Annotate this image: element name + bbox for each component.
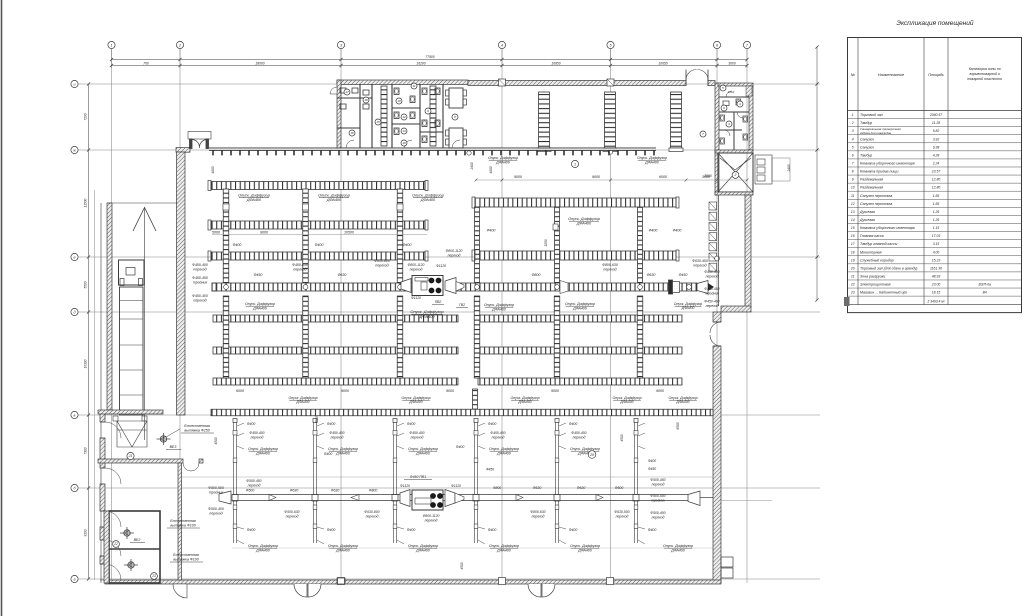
svg-text:Ф630: Ф630	[290, 489, 299, 493]
svg-text:переход: переход	[706, 275, 719, 279]
svg-text:7500: 7500	[315, 416, 319, 423]
svg-text:Ф500-400: Ф500-400	[208, 507, 224, 511]
svg-text:ДФА400: ДФА400	[491, 307, 506, 311]
svg-text:ДФА400: ДФА400	[295, 400, 309, 404]
svg-text:Ф800-630: Ф800-630	[530, 510, 545, 514]
svg-text:Ф630: Ф630	[338, 273, 347, 277]
svg-text:2400: 2400	[787, 164, 791, 172]
svg-text:ДФА400: ДФА400	[681, 306, 695, 310]
svg-text:переход: переход	[603, 268, 616, 272]
svg-text:4.28: 4.28	[933, 153, 940, 157]
svg-text:ДФА400: ДФА400	[246, 198, 262, 202]
svg-text:переход: переход	[492, 436, 505, 440]
svg-text:4: 4	[501, 43, 503, 47]
svg-text:Ф400: Ф400	[247, 422, 256, 426]
svg-text:тройник: тройник	[705, 292, 719, 296]
svg-text:10500: 10500	[344, 231, 354, 235]
svg-text:Ф400: Ф400	[407, 528, 416, 532]
svg-text:15: 15	[851, 226, 855, 230]
svg-text:Ф500-500: Ф500-500	[208, 486, 224, 490]
svg-text:ВЕ3: ВЕ3	[170, 445, 177, 449]
svg-text:23.57: 23.57	[931, 170, 941, 174]
svg-text:23.00: 23.00	[931, 283, 941, 287]
svg-text:Комната уборочного инвентаря: Комната уборочного инвентаря	[860, 226, 915, 230]
svg-text:переход: переход	[248, 484, 261, 488]
svg-text:пожарной опасности: пожарной опасности	[967, 77, 1002, 81]
svg-text:Ф500-450: Ф500-450	[246, 479, 261, 483]
svg-text:Ф630-450: Ф630-450	[692, 259, 708, 263]
svg-text:16: 16	[364, 98, 368, 102]
svg-text:переход: переход	[366, 515, 379, 519]
svg-text:17: 17	[345, 90, 349, 94]
svg-text:Торговый зал: Торговый зал	[860, 113, 883, 117]
svg-text:Наименование: Наименование	[878, 73, 904, 77]
svg-text:18.15: 18.15	[932, 291, 941, 295]
svg-text:13: 13	[402, 129, 406, 133]
svg-text:ДФА400: ДФА400	[418, 314, 435, 319]
svg-text:20: 20	[850, 266, 855, 270]
svg-text:18: 18	[350, 131, 354, 135]
svg-text:Ф450: Ф450	[486, 468, 494, 472]
svg-text:Главная касса: Главная касса	[860, 234, 884, 238]
svg-text:Ф500: Ф500	[246, 489, 255, 493]
svg-text:Ф450-400: Ф450-400	[571, 431, 586, 435]
svg-text:Санузел персонала: Санузел персонала	[860, 194, 892, 198]
svg-text:Ф800: Ф800	[369, 489, 378, 493]
svg-text:ДФА400: ДФА400	[420, 198, 436, 202]
svg-text:ПВ2: ПВ2	[435, 300, 442, 304]
svg-text:1: 1	[574, 162, 576, 166]
svg-text:Ф630-800: Ф630-800	[364, 510, 379, 514]
svg-text:6000: 6000	[236, 389, 244, 393]
svg-text:Естественная: Естественная	[184, 424, 210, 428]
svg-text:ГВ2: ГВ2	[459, 303, 465, 307]
svg-text:9.38: 9.38	[933, 145, 940, 149]
svg-text:Ф450-400: Ф450-400	[704, 270, 719, 274]
svg-text:Ф400: Ф400	[649, 229, 658, 233]
svg-text:19: 19	[851, 258, 855, 262]
svg-text:Ф1120: Ф1120	[436, 264, 446, 268]
svg-text:Ф630: Ф630	[533, 486, 542, 490]
svg-text:Комната уборочного инвентаря: Комната уборочного инвентаря	[860, 162, 915, 166]
svg-text:3: 3	[852, 129, 854, 133]
svg-text:Ф400: Ф400	[233, 243, 242, 247]
svg-text:переход: переход	[251, 436, 264, 440]
svg-text:Ф400: Ф400	[407, 422, 416, 426]
svg-text:19: 19	[402, 141, 406, 145]
svg-text:переход: переход	[693, 264, 706, 268]
svg-text:4500: 4500	[620, 434, 624, 441]
svg-text:11: 11	[851, 194, 855, 198]
svg-text:ДФА400: ДФА400	[255, 451, 270, 455]
svg-text:ДФА400: ДФА400	[495, 160, 510, 164]
svg-text:Ф800-1120: Ф800-1120	[446, 249, 463, 253]
svg-text:9: 9	[852, 178, 854, 182]
svg-text:Мониторная: Мониторная	[860, 250, 882, 254]
svg-text:Ф450-400: Ф450-400	[249, 431, 264, 435]
svg-text:тройник: тройник	[209, 490, 224, 494]
svg-text:7200: 7200	[84, 113, 88, 120]
svg-text:2: 2	[734, 173, 737, 177]
svg-text:В3/П-IIа: В3/П-IIа	[979, 283, 992, 287]
svg-text:Опуск. Диффузор: Опуск. Диффузор	[412, 194, 444, 198]
svg-text:Ф500-400: Ф500-400	[650, 511, 665, 515]
svg-text:№: №	[851, 73, 855, 77]
svg-text:Ф630: Ф630	[647, 273, 656, 277]
svg-text:переход: переход	[706, 304, 719, 308]
svg-text:48.93: 48.93	[932, 275, 941, 279]
svg-text:12: 12	[851, 202, 855, 206]
svg-text:Ф400: Ф400	[569, 528, 578, 532]
svg-text:700: 700	[143, 61, 149, 65]
svg-text:е: е	[74, 255, 76, 259]
svg-text:ДФА400: ДФА400	[675, 400, 689, 404]
svg-text:3000: 3000	[702, 175, 710, 179]
svg-text:15.23: 15.23	[932, 258, 941, 262]
svg-text:11.28: 11.28	[932, 121, 940, 125]
svg-text:Санузел персонала: Санузел персонала	[860, 202, 892, 206]
svg-text:ДФА400: ДФА400	[496, 548, 511, 552]
svg-text:Душевая: Душевая	[859, 210, 875, 214]
svg-text:10850: 10850	[551, 61, 560, 65]
svg-text:тройник: тройник	[651, 498, 665, 502]
svg-text:1.26: 1.26	[933, 218, 940, 222]
svg-text:Категория зоны по: Категория зоны по	[969, 67, 1001, 71]
svg-text:5.82: 5.82	[933, 129, 940, 133]
svg-text:Электрощитовая: Электрощитовая	[860, 283, 891, 287]
svg-text:2.24: 2.24	[932, 162, 940, 166]
svg-text:Служебный коридор: Служебный коридор	[860, 258, 894, 262]
svg-text:1.15: 1.15	[933, 226, 940, 230]
svg-text:Ф630: Ф630	[577, 486, 586, 490]
svg-text:8: 8	[852, 170, 854, 174]
svg-text:9000: 9000	[514, 175, 522, 179]
svg-text:взрывопожарной и: взрывопожарной и	[970, 72, 1000, 76]
svg-text:21: 21	[850, 275, 855, 279]
svg-text:переход: переход	[425, 518, 438, 522]
svg-text:10300: 10300	[84, 359, 88, 368]
svg-text:ДФА400: ДФА400	[577, 548, 592, 552]
svg-text:3.15: 3.15	[933, 242, 940, 246]
svg-text:Ф450-400: Ф450-400	[704, 300, 719, 304]
svg-text:Ф400: Ф400	[327, 422, 336, 426]
svg-text:2: 2	[851, 121, 854, 125]
svg-text:Ф450-450: Ф450-450	[192, 276, 208, 280]
svg-text:переход: переход	[573, 436, 586, 440]
svg-text:ДФА400: ДФА400	[252, 306, 267, 310]
svg-text:Ф450-630: Ф450-630	[292, 263, 308, 267]
svg-text:6: 6	[716, 43, 718, 47]
svg-text:Ф450-400: Ф450-400	[490, 431, 505, 435]
svg-text:Тамбур главной кассы: Тамбур главной кассы	[860, 242, 898, 246]
svg-text:7: 7	[852, 162, 854, 166]
svg-text:4: 4	[852, 137, 854, 141]
svg-text:Торговый зал (для сдачи в арен: Торговый зал (для сдачи в аренду)	[860, 266, 918, 270]
svg-text:12: 12	[402, 115, 406, 119]
svg-text:15: 15	[376, 120, 380, 124]
svg-text:Ф450-400: Ф450-400	[192, 294, 208, 298]
svg-text:2400: 2400	[470, 162, 474, 170]
svg-text:Душевая: Душевая	[859, 218, 875, 222]
svg-text:Ф630: Ф630	[331, 489, 340, 493]
svg-text:Ф400: Ф400	[488, 422, 497, 426]
svg-text:Ф400: Ф400	[569, 422, 578, 426]
svg-text:7300: 7300	[84, 447, 88, 454]
svg-text:9000: 9000	[656, 389, 664, 393]
svg-text:Площадь: Площадь	[928, 73, 944, 77]
svg-text:переход: переход	[209, 511, 222, 515]
svg-text:Ф450: Ф450	[679, 273, 688, 277]
svg-text:Ф1120: Ф1120	[400, 484, 410, 488]
svg-text:4000: 4000	[211, 166, 215, 173]
svg-text:тройник: тройник	[193, 281, 208, 285]
svg-text:10: 10	[397, 99, 401, 103]
svg-text:Опуск. Диффузор: Опуск. Диффузор	[238, 194, 270, 198]
svg-text:Ф400: Ф400	[673, 229, 682, 233]
svg-text:1.65: 1.65	[933, 202, 940, 206]
svg-text:ДФА400: ДФА400	[496, 451, 511, 455]
svg-text:23: 23	[850, 291, 855, 295]
svg-text:ДФА400: ДФА400	[335, 451, 350, 455]
svg-text:Ф400: Ф400	[324, 452, 333, 456]
svg-text:Зона разгрузки: Зона разгрузки	[860, 275, 885, 279]
svg-text:ДФА400: ДФА400	[335, 548, 350, 552]
svg-text:Магазин ... Кабинетный цех: Магазин ... Кабинетный цех	[860, 291, 907, 295]
svg-text:Ф400: Ф400	[487, 229, 496, 233]
svg-text:11: 11	[412, 84, 415, 88]
svg-text:4500: 4500	[460, 562, 464, 569]
svg-text:переход: переход	[193, 299, 206, 303]
svg-text:ДФА400: ДФА400	[572, 306, 587, 310]
svg-text:Опуск. Диффузор: Опуск. Диффузор	[318, 194, 350, 198]
svg-text:в: в	[74, 413, 76, 417]
svg-text:22: 22	[113, 542, 118, 546]
svg-text:1.26: 1.26	[933, 210, 940, 214]
svg-text:переход: переход	[375, 264, 388, 268]
svg-text:ДФА400: ДФА400	[408, 400, 422, 404]
svg-text:16200: 16200	[416, 61, 425, 65]
svg-text:ДФА400: ДФА400	[644, 160, 659, 164]
svg-text:Σ 3463.4 м²: Σ 3463.4 м²	[926, 299, 945, 303]
svg-text:12.80: 12.80	[932, 178, 941, 182]
svg-text:9000: 9000	[446, 389, 454, 393]
svg-text:3250: 3250	[544, 239, 548, 246]
svg-text:Lolol: Lolol	[728, 90, 735, 94]
svg-text:9000: 9000	[260, 231, 268, 235]
svg-text:и: и	[74, 82, 76, 86]
svg-text:Ф450-400: Ф450-400	[329, 431, 344, 435]
svg-text:Естественная: Естественная	[173, 553, 199, 557]
svg-text:Ф500-450: Ф500-450	[650, 478, 665, 482]
svg-text:Санузел: Санузел	[860, 137, 874, 141]
svg-text:20: 20	[589, 453, 594, 457]
svg-text:6: 6	[852, 153, 854, 157]
svg-text:6500: 6500	[676, 422, 680, 429]
svg-text:2: 2	[178, 43, 181, 47]
svg-text:переход: переход	[532, 515, 545, 519]
svg-text:77900: 77900	[425, 55, 434, 59]
svg-text:вытяжка Ф100: вытяжка Ф100	[173, 558, 198, 562]
svg-text:переход: переход	[616, 515, 629, 519]
svg-text:переход: переход	[193, 268, 206, 272]
svg-text:вытяжка Ф250: вытяжка Ф250	[184, 429, 209, 433]
svg-text:3000: 3000	[728, 61, 736, 65]
svg-text:6000: 6000	[659, 175, 667, 179]
svg-text:переход: переход	[331, 436, 344, 440]
svg-text:1161.30: 1161.30	[930, 266, 942, 270]
svg-text:Ф450-450: Ф450-450	[704, 287, 719, 291]
svg-text:4000: 4000	[489, 166, 493, 173]
svg-text:Ф450: Ф450	[648, 467, 656, 471]
svg-text:Комната приема пищи: Комната приема пищи	[860, 170, 898, 174]
svg-text:ДФА400: ДФА400	[255, 548, 270, 552]
svg-text:переход: переход	[652, 483, 665, 487]
svg-text:переход: переход	[448, 254, 461, 258]
svg-text:12.80: 12.80	[932, 186, 941, 190]
svg-text:Тамбур: Тамбур	[860, 121, 872, 125]
svg-text:ДФА400: ДФА400	[415, 451, 430, 455]
svg-text:Экспликация помещений: Экспликация помещений	[896, 19, 974, 27]
svg-text:ДФА400: ДФА400	[517, 400, 531, 404]
svg-text:14: 14	[851, 218, 855, 222]
svg-text:18000: 18000	[255, 61, 264, 65]
svg-text:3.92: 3.92	[933, 137, 940, 141]
svg-text:ж: ж	[72, 148, 76, 152]
svg-text:переход: переход	[652, 515, 665, 519]
svg-text:Ф400: Ф400	[488, 528, 497, 532]
svg-text:кабина для инвалидов: кабина для инвалидов	[860, 131, 892, 135]
svg-text:21: 21	[128, 454, 133, 458]
svg-text:16: 16	[851, 234, 855, 238]
svg-text:ДФА400: ДФА400	[619, 400, 633, 404]
svg-text:Ф450-400: Ф450-400	[409, 431, 424, 435]
svg-text:23: 23	[151, 574, 156, 578]
svg-text:22: 22	[850, 283, 855, 287]
svg-text:переход: переход	[411, 436, 424, 440]
svg-text:2060.57: 2060.57	[929, 113, 942, 117]
svg-text:5000: 5000	[212, 231, 220, 235]
svg-text:Раздевальная: Раздевальная	[860, 178, 883, 182]
svg-text:Ф630-800: Ф630-800	[374, 259, 390, 263]
svg-text:10: 10	[851, 186, 855, 190]
svg-text:переход: переход	[410, 268, 423, 272]
svg-text:Естественная: Естественная	[170, 519, 196, 523]
svg-text:10650: 10650	[658, 61, 667, 65]
svg-text:Ф400: Ф400	[315, 243, 324, 247]
svg-text:д: д	[74, 310, 76, 314]
svg-text:а: а	[74, 577, 76, 581]
svg-text:Ф800-1120: Ф800-1120	[423, 514, 440, 518]
svg-text:ДФА400: ДФА400	[670, 548, 685, 552]
svg-text:4.00: 4.00	[933, 250, 940, 254]
svg-text:Ф1120: Ф1120	[411, 296, 421, 300]
svg-text:Ф800-1120: Ф800-1120	[408, 263, 425, 267]
svg-text:Ф450: Ф450	[254, 273, 263, 277]
svg-text:17: 17	[851, 242, 855, 246]
svg-text:5500: 5500	[84, 281, 88, 288]
svg-text:Ф630-500: Ф630-500	[614, 510, 629, 514]
svg-text:Ф1120: Ф1120	[451, 484, 461, 488]
svg-text:Санузел: Санузел	[860, 145, 874, 149]
svg-text:5: 5	[610, 43, 612, 47]
svg-text:18: 18	[851, 250, 855, 254]
svg-text:Ф450-400: Ф450-400	[192, 263, 208, 267]
svg-text:4500: 4500	[214, 437, 218, 444]
svg-text:Ф400: Ф400	[327, 528, 336, 532]
svg-text:3: 3	[340, 43, 342, 47]
svg-text:ДФА400: ДФА400	[415, 548, 430, 552]
svg-text:11500: 11500	[84, 198, 88, 207]
svg-text:9000: 9000	[592, 175, 600, 179]
svg-text:В4: В4	[983, 291, 987, 295]
svg-text:переход: переход	[286, 515, 299, 519]
svg-text:Ф800-630: Ф800-630	[602, 263, 618, 267]
svg-text:Ф400: Ф400	[648, 459, 656, 463]
svg-text:Ф500-630: Ф500-630	[284, 510, 299, 514]
svg-text:Ф400: Ф400	[456, 445, 465, 449]
svg-text:Опуск. Диффузор: Опуск. Диффузор	[568, 217, 600, 221]
svg-text:Ф800: Ф800	[493, 486, 501, 490]
svg-text:Ф400: Ф400	[247, 528, 256, 532]
svg-text:Ф400: Ф400	[403, 243, 412, 247]
svg-text:переход: переход	[293, 268, 306, 272]
svg-text:Ф800: Ф800	[532, 273, 541, 277]
svg-text:1.65: 1.65	[933, 194, 940, 198]
svg-text:17.03: 17.03	[932, 234, 941, 238]
svg-text:Ф500: Ф500	[615, 486, 624, 490]
svg-text:вытяжка Ф100: вытяжка Ф100	[170, 524, 195, 528]
svg-text:9100: 9100	[84, 529, 88, 536]
svg-text:13: 13	[851, 210, 855, 214]
svg-text:9000: 9000	[551, 389, 559, 393]
svg-text:Ф400: Ф400	[648, 528, 657, 532]
svg-text:Раздевальная: Раздевальная	[860, 186, 883, 190]
svg-text:ВЕ2: ВЕ2	[134, 538, 141, 542]
svg-text:ДФА400: ДФА400	[326, 198, 342, 202]
svg-text:1: 1	[111, 43, 113, 47]
svg-text:ДФА400: ДФА400	[576, 222, 592, 226]
svg-text:9000: 9000	[341, 389, 349, 393]
svg-text:5: 5	[852, 145, 854, 149]
svg-text:Тамбур: Тамбур	[860, 153, 872, 157]
svg-text:Ф500-500: Ф500-500	[650, 494, 665, 498]
svg-text:1: 1	[852, 113, 854, 117]
